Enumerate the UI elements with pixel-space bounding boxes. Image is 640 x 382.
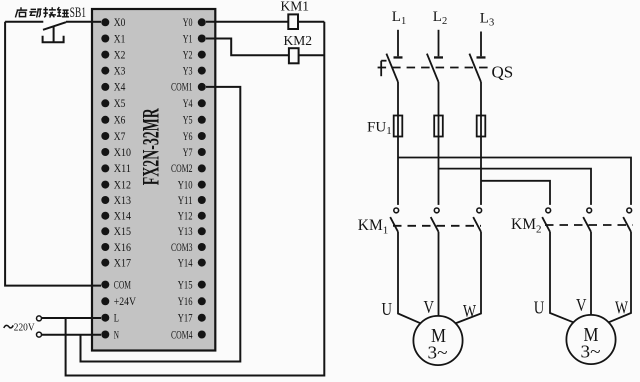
svg-text:N: N: [114, 329, 120, 341]
svg-text:Y6: Y6: [183, 131, 193, 143]
pushbutton SB1: [5, 22, 92, 42]
svg-text:X5: X5: [114, 98, 126, 110]
svg-text:COM1: COM1: [171, 82, 193, 94]
terminal X13: [101, 195, 131, 207]
wire N to COM1 (bottom inner loop): [81, 87, 241, 362]
svg-text:FX2N-32MR: FX2N-32MR: [139, 108, 164, 185]
svg-text:Y1: Y1: [183, 33, 193, 45]
terminal Y1: [183, 33, 206, 45]
terminal X17: [101, 257, 131, 269]
PLC label FX2N-32MR: [139, 108, 164, 185]
svg-text:Y4: Y4: [183, 98, 193, 110]
terminal circle L: [37, 316, 42, 321]
svg-text:KM2: KM2: [284, 33, 313, 48]
switch QS linkage dashed: [378, 67, 490, 69]
svg-text:Y17: Y17: [178, 313, 193, 325]
svg-text:X10: X10: [114, 147, 131, 159]
coil KM2: [289, 48, 299, 63]
terminal Y0: [183, 17, 206, 29]
terminal X2: [101, 49, 125, 61]
svg-text:X17: X17: [114, 257, 131, 269]
terminal X16: [101, 242, 131, 254]
svg-text:QS: QS: [492, 63, 514, 82]
svg-text:X2: X2: [114, 49, 126, 61]
wire Y1 to coil KM2: [206, 39, 289, 56]
terminal COM: [101, 279, 131, 291]
terminal X6: [101, 115, 125, 127]
svg-text:X13: X13: [114, 195, 131, 207]
svg-text:X15: X15: [114, 226, 131, 238]
wire pole3 to fuse: [480, 82, 482, 205]
contactor KM1 pole2: [431, 208, 439, 232]
svg-text:COM2: COM2: [171, 163, 193, 175]
svg-text:Y0: Y0: [183, 17, 193, 29]
phase L2 lead with arrow: [434, 30, 443, 59]
fuse 3: [477, 116, 486, 137]
svg-text:X0: X0: [114, 17, 126, 29]
wire L rail to KM coil bus (bottom outer loop): [66, 22, 325, 376]
PLC FX2N-32MR body: [92, 9, 215, 351]
terminal X12: [101, 179, 131, 191]
svg-text:Y5: Y5: [183, 115, 193, 127]
terminal Y17: [178, 313, 206, 325]
terminal Y3: [183, 65, 206, 77]
wire 220V to N: [42, 334, 102, 336]
svg-text:V: V: [576, 295, 587, 315]
svg-text:W: W: [615, 298, 628, 318]
switch QS handle: [381, 61, 386, 76]
wire COM to left rail: [5, 22, 101, 286]
terminal COM3: [171, 242, 206, 254]
svg-text:Y10: Y10: [178, 179, 193, 191]
svg-text:X7: X7: [114, 131, 126, 143]
branch phase1 to KM2 pole3: [398, 158, 631, 205]
svg-text:Y11: Y11: [178, 195, 193, 207]
contactor KM2 pole1: [542, 208, 550, 232]
svg-text:KM1: KM1: [281, 0, 310, 14]
terminal COM2: [171, 163, 206, 175]
svg-text:COM4: COM4: [171, 329, 193, 341]
svg-text:220V: 220V: [14, 321, 35, 333]
contactor KM1 pole3: [473, 208, 481, 232]
switch QS blade pole3: [469, 54, 481, 82]
wire SB1 to X0: [92, 21, 101, 23]
motor1 feeder V: [438, 232, 440, 316]
terminal X10: [101, 147, 131, 159]
contactor KM1 pole1: [390, 208, 398, 232]
contactor KM2 linkage dashed: [545, 224, 633, 226]
svg-text:X1: X1: [114, 33, 126, 45]
svg-text:Y7: Y7: [183, 147, 193, 159]
svg-text:SB1: SB1: [70, 5, 87, 21]
terminal Y7: [183, 147, 206, 159]
svg-text:L: L: [114, 313, 119, 325]
svg-text:X14: X14: [114, 211, 131, 223]
wire coil KM2 to bus: [299, 54, 325, 56]
terminal X14: [101, 211, 131, 223]
motor2 feeder U: [550, 232, 574, 323]
fuse 1: [394, 116, 403, 137]
terminal COM4: [171, 329, 206, 341]
wire pole2 to fuse: [438, 82, 440, 205]
terminal X11: [101, 163, 131, 175]
terminal X7: [101, 131, 125, 143]
phase L3 lead with arrow: [477, 32, 486, 59]
svg-text:+24V: +24V: [114, 296, 137, 308]
svg-text:X4: X4: [114, 82, 126, 94]
wire coil KM1 to bus: [298, 21, 324, 23]
svg-text:U: U: [382, 299, 393, 319]
terminal +24V: [101, 296, 136, 308]
svg-text:W: W: [463, 301, 476, 321]
phase L1 lead with arrow: [394, 30, 403, 59]
motor1 feeder W: [455, 232, 481, 324]
svg-text:X12: X12: [114, 179, 131, 191]
svg-text:Y12: Y12: [178, 211, 193, 223]
svg-text:3~: 3~: [428, 343, 448, 363]
branch phase2 to KM2 pole2: [439, 169, 592, 205]
branch phase3 to KM2 pole1: [481, 181, 550, 205]
terminal Y14: [178, 257, 206, 269]
svg-text:X3: X3: [114, 65, 126, 77]
terminal COM1: [171, 82, 206, 94]
terminal L: [101, 313, 119, 325]
terminal Y6: [183, 131, 206, 143]
terminal Y2: [183, 49, 206, 61]
terminal Y4: [183, 98, 206, 110]
wire Y0 to coil KM1: [206, 21, 288, 23]
terminal Y12: [178, 211, 206, 223]
terminal Y16: [178, 296, 206, 308]
svg-text:X16: X16: [114, 242, 131, 254]
terminal Y10: [178, 179, 206, 191]
label 启动按钮SB1 (CJK drawn as strokes): [15, 7, 69, 18]
svg-text:Y15: Y15: [178, 279, 193, 291]
terminal Y11: [178, 195, 206, 207]
svg-text:V: V: [424, 297, 435, 317]
terminal X1: [101, 33, 125, 45]
terminal N: [101, 329, 119, 341]
wire pole1 to fuse: [397, 82, 399, 205]
motor2 feeder W: [608, 232, 631, 323]
svg-text:COM: COM: [114, 279, 131, 291]
svg-text:Y3: Y3: [183, 65, 193, 77]
motor1 feeder U: [398, 232, 421, 324]
svg-text:Y13: Y13: [178, 226, 193, 238]
svg-text:U: U: [534, 298, 545, 318]
terminal Y5: [183, 115, 206, 127]
terminal Y13: [178, 226, 206, 238]
contactor KM2 pole2: [583, 208, 591, 232]
switch QS blade pole2: [427, 54, 439, 82]
terminal X15: [101, 226, 131, 238]
switch QS blade pole1: [386, 54, 398, 82]
svg-text:Y16: Y16: [178, 296, 193, 308]
svg-text:X6: X6: [114, 115, 126, 127]
terminal X0: [101, 17, 125, 29]
contactor KM2 pole3: [623, 208, 631, 232]
terminal X3: [101, 65, 125, 77]
terminal circle N: [37, 332, 42, 337]
coil KM1: [288, 14, 298, 29]
contactor KM1 linkage dashed: [393, 225, 481, 227]
terminal X5: [101, 98, 125, 110]
svg-text:Y2: Y2: [183, 49, 193, 61]
svg-text:3~: 3~: [581, 342, 601, 362]
motor M2 circle: [566, 315, 615, 364]
wire 220V to L: [42, 317, 102, 319]
motor2 feeder V: [590, 232, 592, 315]
svg-text:Y14: Y14: [178, 257, 193, 269]
terminal Y15: [178, 279, 206, 291]
terminal X4: [101, 82, 125, 94]
svg-text:COM3: COM3: [171, 242, 193, 254]
svg-text:X11: X11: [114, 163, 131, 175]
motor M1 circle: [413, 316, 462, 365]
AC source ~220V label: [4, 325, 13, 328]
fuse 2: [434, 116, 443, 137]
